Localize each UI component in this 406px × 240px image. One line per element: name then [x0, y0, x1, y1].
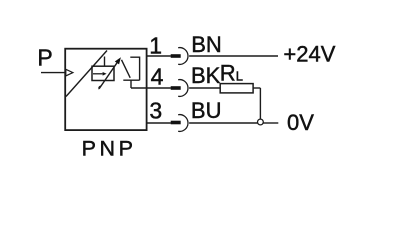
wire node to 0V: [263, 122, 278, 124]
adjustment arrowhead: [115, 57, 121, 64]
input arrowhead: [66, 69, 73, 76]
svg-text:BK: BK: [191, 63, 221, 88]
socket arc pin3: [178, 115, 188, 132]
input wire P: [41, 72, 65, 74]
socket arc pin1: [178, 48, 188, 65]
switch blade: [122, 60, 131, 78]
svg-text:3: 3: [149, 98, 162, 124]
adjustment arrow shaft: [99, 63, 117, 89]
wire BK to resistor: [189, 87, 220, 89]
pot connect tick: [104, 57, 106, 67]
wire resistor to corner: [253, 87, 260, 89]
wire pin4 inside box: [131, 87, 171, 89]
switch output stub: [130, 80, 132, 88]
svg-text:PNP: PNP: [82, 137, 137, 161]
pot wiper arrow line: [93, 73, 103, 75]
svg-text:RL: RL: [220, 60, 243, 85]
svg-text:4: 4: [151, 63, 164, 89]
svg-text:P: P: [37, 45, 52, 71]
socket arc pin4: [178, 80, 188, 97]
switch upper bracket: [130, 57, 139, 80]
node circle: [258, 119, 264, 125]
sensor box U1: [65, 49, 146, 130]
plug bar pin3: [171, 121, 181, 125]
svg-text:0V: 0V: [287, 110, 314, 135]
plug bar pin1: [171, 54, 181, 58]
pot wiper arrowhead: [103, 72, 107, 76]
wire BN to +24V: [189, 55, 278, 57]
potentiometer box: [92, 66, 114, 80]
sensor diagonal: [66, 51, 107, 97]
svg-text:BU: BU: [191, 98, 222, 123]
wire BU to node: [189, 122, 257, 124]
wire pin1: [147, 55, 171, 57]
resistor RL: [220, 84, 253, 93]
wire corner down to node: [259, 88, 261, 119]
svg-text:BN: BN: [191, 32, 222, 57]
switch lower terminal: [123, 79, 139, 81]
plug bar pin4: [171, 86, 181, 90]
wire pin3: [147, 122, 171, 124]
svg-text:+24V: +24V: [283, 41, 335, 66]
svg-text:1: 1: [149, 33, 162, 59]
